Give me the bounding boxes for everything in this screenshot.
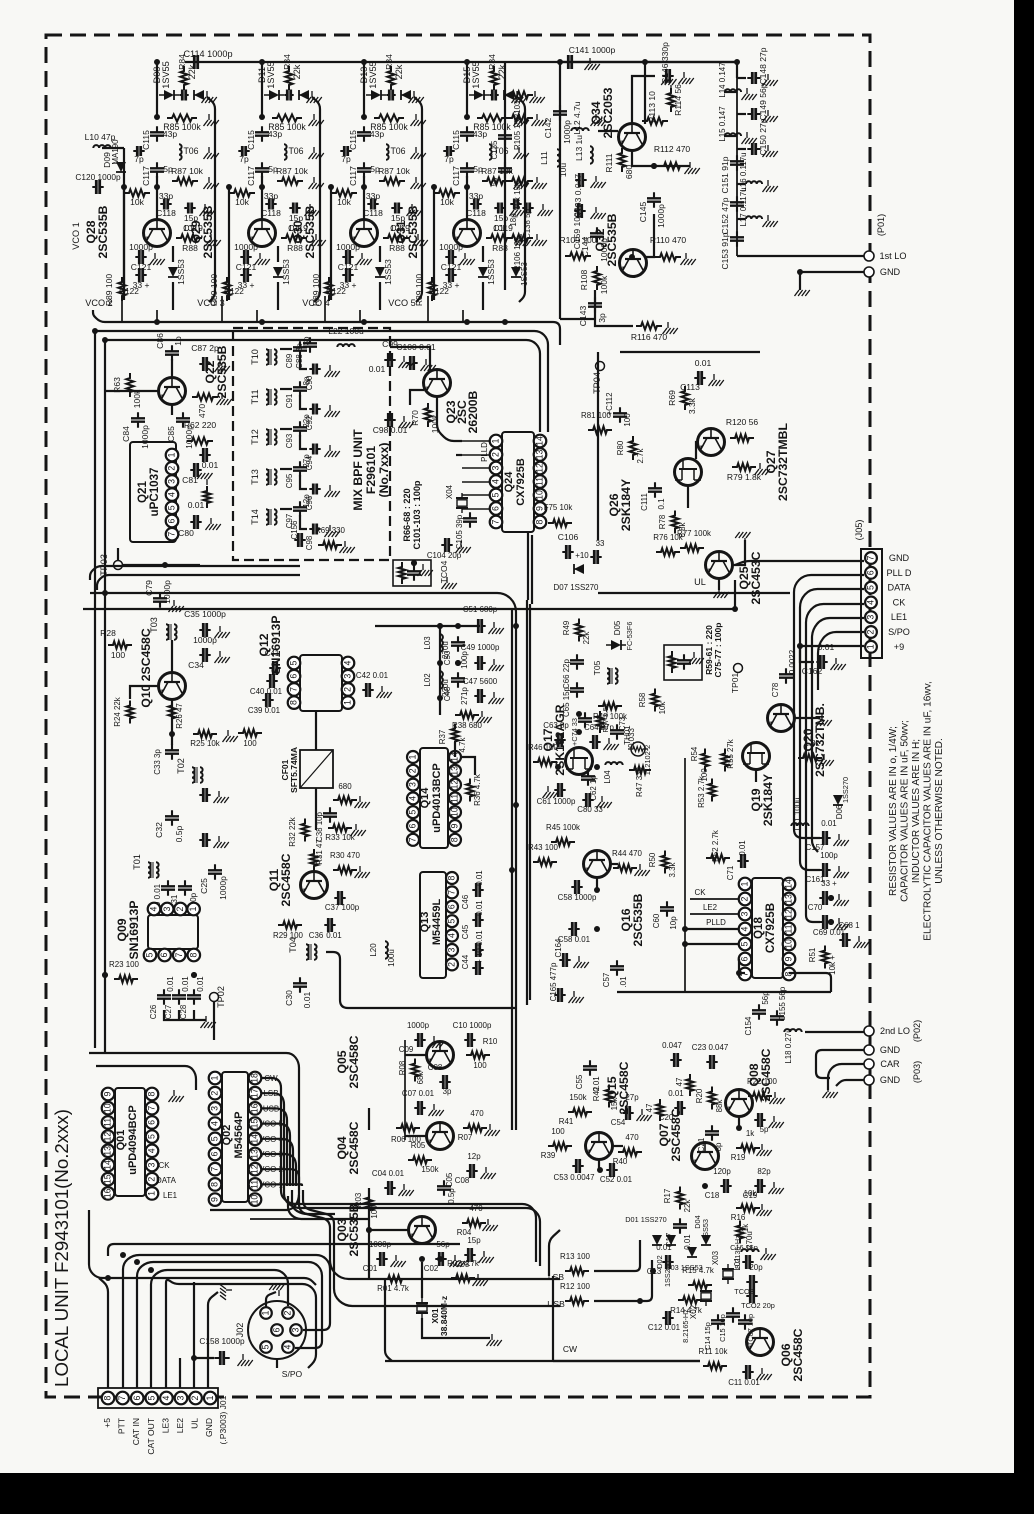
svg-text:13: 13 <box>450 766 460 776</box>
pin 8 Q24 <box>534 516 547 529</box>
pin 3 Q12 <box>342 670 355 683</box>
svg-text:C135: C135 <box>490 140 499 160</box>
svg-text:R69 330: R69 330 <box>315 526 346 535</box>
svg-text:C101-103 : 100p: C101-103 : 100p <box>412 480 422 549</box>
svg-text:R15 4.7k: R15 4.7k <box>682 1266 714 1275</box>
svg-text:27p: 27p <box>625 1093 639 1102</box>
pin 4 Q12 <box>342 657 355 670</box>
pin 7 Q14 <box>407 834 419 846</box>
svg-text:C84: C84 <box>121 426 131 442</box>
svg-text:R70: R70 <box>410 410 420 426</box>
capacitor 7p <box>238 150 249 152</box>
resistor R81 100 <box>588 426 612 433</box>
capacitor C98 <box>309 528 320 530</box>
svg-text:C120 1000p: C120 1000p <box>75 172 121 182</box>
svg-text:20p: 20p <box>749 1263 763 1272</box>
resistor R51 10k <box>821 946 828 969</box>
svg-text:RESISTOR VALUES ARE IN o, 1/4W: RESISTOR VALUES ARE IN o, 1/4W; <box>888 726 899 896</box>
svg-text:C49 1000p: C49 1000p <box>461 643 500 652</box>
svg-text:1: 1 <box>491 438 501 443</box>
transistor Q03 2SC535B <box>409 1217 436 1244</box>
svg-text:15: 15 <box>103 1174 113 1184</box>
wire q0345 bus <box>368 1108 370 1130</box>
svg-text:C98 0.01: C98 0.01 <box>373 425 408 435</box>
resistor R15 4.7k <box>688 1281 712 1288</box>
pin 12 Q18 <box>783 908 796 921</box>
svg-text:R84: R84 <box>384 54 394 70</box>
svg-text:(P01): (P01) <box>876 214 886 236</box>
pin 3 Q24 <box>490 462 503 475</box>
svg-text:26200B: 26200B <box>466 390 480 433</box>
svg-text:TCO2 20p: TCO2 20p <box>741 1301 775 1310</box>
svg-text:2SC535B: 2SC535B <box>303 205 317 258</box>
capacitor C20 0.01 <box>674 1107 685 1109</box>
svg-text:8p: 8p <box>302 376 311 385</box>
svg-text:9: 9 <box>103 1091 113 1096</box>
pin 6 J02 <box>271 1324 283 1336</box>
capacitor C10 1000p <box>464 1039 475 1041</box>
svg-text:C150 27p: C150 27p <box>758 118 768 155</box>
svg-text:6: 6 <box>447 904 457 909</box>
svg-text:R43 100: R43 100 <box>528 843 559 852</box>
pin 4 Q18 <box>739 923 752 936</box>
svg-text:C38 10p: C38 10p <box>315 811 324 842</box>
pin 11 Q14 <box>449 792 461 804</box>
pin 2 Q09 <box>174 903 187 916</box>
wire q25 emitter <box>718 579 720 590</box>
crystal X03 8.2135MHz <box>722 1269 734 1279</box>
resistor R45 100k <box>551 838 575 845</box>
svg-text:MA190: MA190 <box>111 139 120 165</box>
svg-text:uPD4013BCP: uPD4013BCP <box>431 763 443 833</box>
capacitor C68 1 <box>839 939 850 941</box>
svg-text:T11: T11 <box>250 389 260 404</box>
svg-text:1: 1 <box>210 1075 220 1080</box>
svg-text:4: 4 <box>161 1395 171 1400</box>
capacitor C74 33 <box>584 712 586 727</box>
pin 16 Q01 <box>102 1187 115 1200</box>
wire t02 caps <box>199 794 210 796</box>
pin 16 Q02 <box>249 1102 262 1115</box>
svg-text:Q24: Q24 <box>503 471 515 493</box>
pin 7 J01 <box>116 1392 129 1405</box>
capacitor C135 43p <box>504 129 506 144</box>
capacitor C87 2p <box>199 363 210 365</box>
pin 7 Q02 <box>209 1163 222 1176</box>
wire q10 <box>171 640 173 672</box>
box TO04 <box>393 560 431 586</box>
connector pin 2nd LO (P02) <box>864 1026 874 1036</box>
svg-text:C09: C09 <box>399 1045 414 1054</box>
test point TP03 <box>114 561 123 570</box>
capacitor C36 0.01 <box>324 924 335 926</box>
LPF chain 1st LO <box>736 62 738 78</box>
svg-text:R39: R39 <box>541 1151 556 1160</box>
resistor R77 100k <box>680 544 704 551</box>
capacitor C37 100p <box>334 897 345 899</box>
svg-text:0.01: 0.01 <box>202 460 219 470</box>
svg-text:271p: 271p <box>460 687 469 705</box>
pin 5 J01 <box>146 1392 159 1405</box>
crystal X02 8.2165MHz <box>700 1291 712 1301</box>
svg-text:C45: C45 <box>461 924 470 939</box>
svg-text:VCO 2: VCO 2 <box>85 298 112 308</box>
capacitor C30 0.01 <box>299 977 301 992</box>
wire +9 down <box>800 645 864 647</box>
capacitor 5p <box>261 162 263 177</box>
L17 0.117u <box>746 216 762 219</box>
svg-text:R28: R28 <box>100 628 116 638</box>
svg-text:3: 3 <box>740 911 750 916</box>
pin 1 J01 <box>204 1392 217 1405</box>
resistor R17 22k <box>676 1187 683 1210</box>
svg-text:2SC535B: 2SC535B <box>406 205 420 258</box>
capacitor C60 10p <box>666 901 668 916</box>
svg-text:DATA: DATA <box>888 583 912 593</box>
svg-text:2: 2 <box>866 629 876 634</box>
resistor R07 470 <box>463 1124 487 1131</box>
svg-text:2: 2 <box>740 896 750 901</box>
svg-text:C25: C25 <box>199 878 209 894</box>
capacitor 1000p <box>240 256 251 258</box>
svg-text:2nd LO: 2nd LO <box>880 1026 910 1036</box>
resistor R110 470 <box>655 253 681 260</box>
svg-text:5: 5 <box>447 919 457 924</box>
crystal X01 38.840MHz <box>416 1303 428 1313</box>
pin 2 J02 <box>282 1307 294 1319</box>
capacitor C05 0.5p <box>443 1180 445 1195</box>
scan edge black bar bottom <box>0 1473 1034 1514</box>
capacitor 1000p <box>445 256 456 258</box>
svg-text:R112 470: R112 470 <box>654 144 691 154</box>
svg-text:2SC458C: 2SC458C <box>791 1328 805 1381</box>
capacitor C93 22p <box>299 421 301 436</box>
svg-text:C118: C118 <box>261 208 281 218</box>
svg-text:X02: X02 <box>689 1305 698 1319</box>
svg-text:14: 14 <box>103 1160 113 1170</box>
svg-text:C149 56p: C149 56p <box>758 83 768 120</box>
svg-text:0.01: 0.01 <box>475 930 484 946</box>
svg-text:8: 8 <box>450 837 460 842</box>
pin 5 J05 DATA <box>865 582 877 594</box>
svg-text:5: 5 <box>289 660 299 665</box>
resistor R41 150k <box>568 1108 592 1115</box>
wire base <box>466 176 468 220</box>
capacitor C100 0.01 <box>406 362 417 364</box>
svg-text:6: 6 <box>866 570 876 575</box>
svg-text:C156: C156 <box>290 520 299 540</box>
svg-text:INDUCTOR VALUES ARE IN H;: INDUCTOR VALUES ARE IN H; <box>911 739 922 883</box>
svg-text:C164: C164 <box>554 938 563 958</box>
svg-text:10p: 10p <box>669 916 678 930</box>
capacitor C25 1000p <box>214 864 216 879</box>
pin 6 Q24 <box>490 502 503 515</box>
coil T02 <box>192 767 195 783</box>
svg-text:C117: C117 <box>141 166 151 186</box>
svg-text:43p: 43p <box>370 129 384 139</box>
svg-text:R45 100k: R45 100k <box>546 823 580 832</box>
IC Q12 SN16913P <box>300 655 342 711</box>
svg-text:Q18: Q18 <box>753 917 765 939</box>
svg-text:7: 7 <box>491 519 501 524</box>
resistor R06 100 <box>396 1124 420 1131</box>
pin 2 Q02 <box>209 1087 222 1100</box>
svg-text:68k: 68k <box>416 1072 425 1085</box>
svg-text:5: 5 <box>261 1344 271 1349</box>
svg-text:R50: R50 <box>648 852 657 867</box>
svg-text:4: 4 <box>210 1121 220 1126</box>
capacitor C158 1000p <box>214 1357 229 1359</box>
resistor R12 100 <box>565 1297 589 1304</box>
pin 5 Q14 <box>407 806 419 818</box>
svg-text:1000p: 1000p <box>562 120 572 144</box>
transistor Q23 2SC26200B <box>424 370 451 397</box>
pin 6 Q12 <box>288 670 301 683</box>
svg-text:12: 12 <box>250 1164 260 1174</box>
svg-text:L16 0.117u: L16 0.117u <box>739 152 748 191</box>
svg-text:R17: R17 <box>663 1189 672 1204</box>
svg-text:R10: R10 <box>483 1037 498 1046</box>
svg-text:15k: 15k <box>610 1098 619 1111</box>
pin 15 Q02 <box>249 1117 262 1130</box>
svg-text:10: 10 <box>250 1195 260 1205</box>
svg-text:D05: D05 <box>613 620 622 635</box>
svg-text:GND: GND <box>880 1045 901 1055</box>
capacitors C26 C27 C28 0.01 <box>163 989 165 1004</box>
pin 5 Q12 <box>288 657 301 670</box>
varactor D11 1SV55 <box>269 90 279 100</box>
svg-text:10k: 10k <box>658 702 667 715</box>
svg-text:2SC535B: 2SC535B <box>347 1203 361 1256</box>
svg-text:10u: 10u <box>558 163 568 177</box>
connector J05 body <box>861 549 882 658</box>
svg-text:R41: R41 <box>559 1117 574 1126</box>
svg-text:8: 8 <box>447 875 457 880</box>
pin 3 Q13 <box>446 944 458 956</box>
capacitor C24 0.047 <box>670 1059 681 1061</box>
svg-text:1: 1 <box>167 452 177 457</box>
capacitor C120 1000p <box>92 186 103 188</box>
capacitor C86 1p <box>171 345 173 360</box>
svg-text:M54564P: M54564P <box>233 1112 245 1159</box>
svg-text:R36 4.7k: R36 4.7k <box>473 774 482 806</box>
svg-text:43p: 43p <box>163 129 177 139</box>
svg-text:C42 0.01: C42 0.01 <box>356 671 389 680</box>
pin 14 Q14 <box>449 751 461 763</box>
resistor R108 100k <box>593 266 600 290</box>
svg-text:11: 11 <box>450 794 460 803</box>
test point TP01 <box>734 664 743 673</box>
capacitor 7p <box>133 150 144 152</box>
svg-text:10k: 10k <box>440 197 454 207</box>
svg-text:1.8k: 1.8k <box>805 739 820 748</box>
svg-text:UNLESS OTHERWISE NOTED.: UNLESS OTHERWISE NOTED. <box>934 738 945 884</box>
svg-text:PLL D: PLL D <box>886 568 911 578</box>
resistor R30 470 <box>333 866 357 873</box>
svg-text:R11 10k: R11 10k <box>699 1347 728 1356</box>
svg-text:C158 1000p: C158 1000p <box>199 1336 245 1346</box>
resistor R46 100 <box>533 758 557 765</box>
svg-text:L04: L04 <box>603 770 612 784</box>
svg-text:PTT: PTT <box>117 1417 127 1434</box>
svg-text:33p: 33p <box>469 191 483 201</box>
svg-text:3: 3 <box>167 479 177 484</box>
svg-text:R53 2.7k: R53 2.7k <box>697 776 706 808</box>
svg-text:C61 1000p: C61 1000p <box>537 797 576 806</box>
capacitor C38 10p <box>329 807 331 822</box>
svg-text:R62 220: R62 220 <box>184 420 217 430</box>
pin 7 Q09 <box>173 949 186 962</box>
svg-text:680: 680 <box>338 782 352 791</box>
resistor R79 1.8k <box>732 463 756 470</box>
resistor R26 47 <box>168 701 175 724</box>
svg-text:Q10 2SC458C: Q10 2SC458C <box>139 628 153 707</box>
svg-text:7: 7 <box>289 687 299 692</box>
svg-text:R19: R19 <box>731 1153 746 1162</box>
svg-text:1000p: 1000p <box>599 238 609 262</box>
wire to 2nd LO <box>805 1031 864 1033</box>
resistor R21 47 <box>686 1074 693 1096</box>
svg-text:1: 1 <box>408 754 418 759</box>
coil T04 <box>306 944 309 960</box>
svg-text:LE1: LE1 <box>891 612 907 622</box>
svg-text:4: 4 <box>167 492 177 497</box>
svg-text:+5: +5 <box>102 1418 112 1428</box>
capacitor C08 3p <box>439 1081 450 1083</box>
box R59-61 <box>664 645 702 680</box>
pin 2 J01 <box>189 1392 202 1405</box>
pin 6 J01 <box>131 1392 144 1405</box>
svg-text:13: 13 <box>103 1146 113 1156</box>
svg-text:C15 10p: C15 10p <box>718 1314 727 1342</box>
svg-text:0.01: 0.01 <box>369 364 386 374</box>
resistor R37 4.7k <box>451 724 458 747</box>
diode D02 1SS270 <box>666 1235 676 1245</box>
svg-text:10: 10 <box>784 939 794 949</box>
resistor R36 4.7k <box>466 779 473 802</box>
svg-text:(P02): (P02) <box>912 1020 922 1042</box>
capacitor C159 1000p <box>574 210 585 212</box>
pin 12 Q24 <box>534 462 547 475</box>
pin 6 J05 PLL D <box>865 567 877 579</box>
svg-text:43p: 43p <box>473 129 487 139</box>
resistor R23 100 <box>114 975 138 982</box>
wire box edge to bus <box>89 1210 316 1285</box>
pin 11 Q01 <box>102 1116 115 1129</box>
capacitor C73 0.033 <box>616 724 618 739</box>
transformer T12 <box>266 429 269 445</box>
pin 3 Q09 <box>161 903 174 916</box>
pin 8 Q13 <box>446 872 458 884</box>
pin 3 Q21 <box>166 475 179 488</box>
pin 14 Q01 <box>102 1159 115 1172</box>
svg-text:R108: R108 <box>579 270 589 291</box>
pin 1 Q14 <box>407 751 419 763</box>
svg-text:14: 14 <box>250 1134 260 1144</box>
svg-text:1k: 1k <box>741 1224 750 1232</box>
pin 3 J05 LE1 <box>865 611 877 623</box>
svg-text:C154: C154 <box>744 1016 753 1036</box>
svg-text:2: 2 <box>343 687 353 692</box>
L14 0.147 <box>725 89 741 92</box>
capacitor C70 33+ <box>819 897 830 899</box>
pin 10 Q02 <box>249 1193 262 1206</box>
svg-text:1000p: 1000p <box>369 1240 392 1249</box>
capacitor C49 1000p <box>474 662 485 664</box>
wire t-link <box>280 428 292 430</box>
pin 4 Q21 <box>166 488 179 501</box>
svg-text:5: 5 <box>145 952 155 957</box>
svg-text:C70: C70 <box>808 903 823 912</box>
wire cell right rail <box>207 97 215 302</box>
wire cell feed <box>156 62 158 117</box>
svg-text:D06: D06 <box>835 804 844 819</box>
wire q02 bundle right <box>281 1186 536 1262</box>
capacitor C50 100p <box>457 636 459 651</box>
svg-text:4: 4 <box>147 1148 157 1153</box>
svg-text:0.0022: 0.0022 <box>788 650 797 674</box>
svg-text:C51 680p: C51 680p <box>463 605 498 614</box>
pin 14 Q18 <box>783 878 796 891</box>
svg-text:27p: 27p <box>302 454 311 468</box>
wire q18 bottom <box>739 959 745 973</box>
svg-text:R113 10: R113 10 <box>647 91 657 123</box>
wire q17 frame <box>526 600 528 1005</box>
svg-text:10k: 10k <box>235 197 249 207</box>
diode D06 1SS270 <box>833 795 843 805</box>
pin 9 Q01 <box>102 1088 115 1101</box>
thermistor TH01 <box>631 742 645 756</box>
svg-text:7p: 7p <box>239 154 249 164</box>
coil L01 270u <box>741 1249 758 1252</box>
IC Q18 CX7925B <box>752 878 783 978</box>
capacitor C23 0.047 <box>706 1061 717 1063</box>
svg-text:T14: T14 <box>250 509 260 525</box>
capacitor C85 1000p <box>182 412 184 427</box>
capacitor C65 15p <box>576 682 578 697</box>
wire trunk left extras <box>90 566 300 580</box>
svg-text:2: 2 <box>408 768 418 773</box>
wire t-link <box>280 468 292 470</box>
pin 6 Q09 <box>158 949 171 962</box>
capacitor C84 1000p <box>137 412 139 427</box>
capacitor C33 3p <box>171 744 173 759</box>
svg-text:T13: T13 <box>250 469 260 485</box>
svg-text:22p: 22p <box>302 414 311 428</box>
svg-text:5p: 5p <box>760 1125 769 1134</box>
wire t-link <box>280 388 292 390</box>
pin 2 Q12 <box>342 683 355 696</box>
svg-text:12: 12 <box>784 909 794 919</box>
svg-text:C41: C41 <box>265 649 280 658</box>
svg-text:3: 3 <box>162 906 172 911</box>
svg-text:C16 15p: C16 15p <box>730 1243 758 1252</box>
svg-text:L03: L03 <box>423 636 432 650</box>
pin 2 Q21 <box>166 462 179 475</box>
pin 8 J01 <box>102 1392 115 1405</box>
wire bottom <box>560 318 595 320</box>
svg-text:D07 1SS270: D07 1SS270 <box>554 583 600 592</box>
svg-text:470: 470 <box>470 1109 484 1118</box>
svg-text:C32: C32 <box>154 822 164 838</box>
svg-text:VCO 3: VCO 3 <box>197 298 224 308</box>
svg-text:2SK184Y: 2SK184Y <box>761 774 775 826</box>
capacitor C51 680p <box>474 625 485 627</box>
svg-text:C73: C73 <box>618 716 627 731</box>
svg-text:C81: C81 <box>182 475 198 485</box>
capacitor C141 1000p <box>562 61 577 63</box>
capacitor C157 0.01 <box>819 837 830 839</box>
